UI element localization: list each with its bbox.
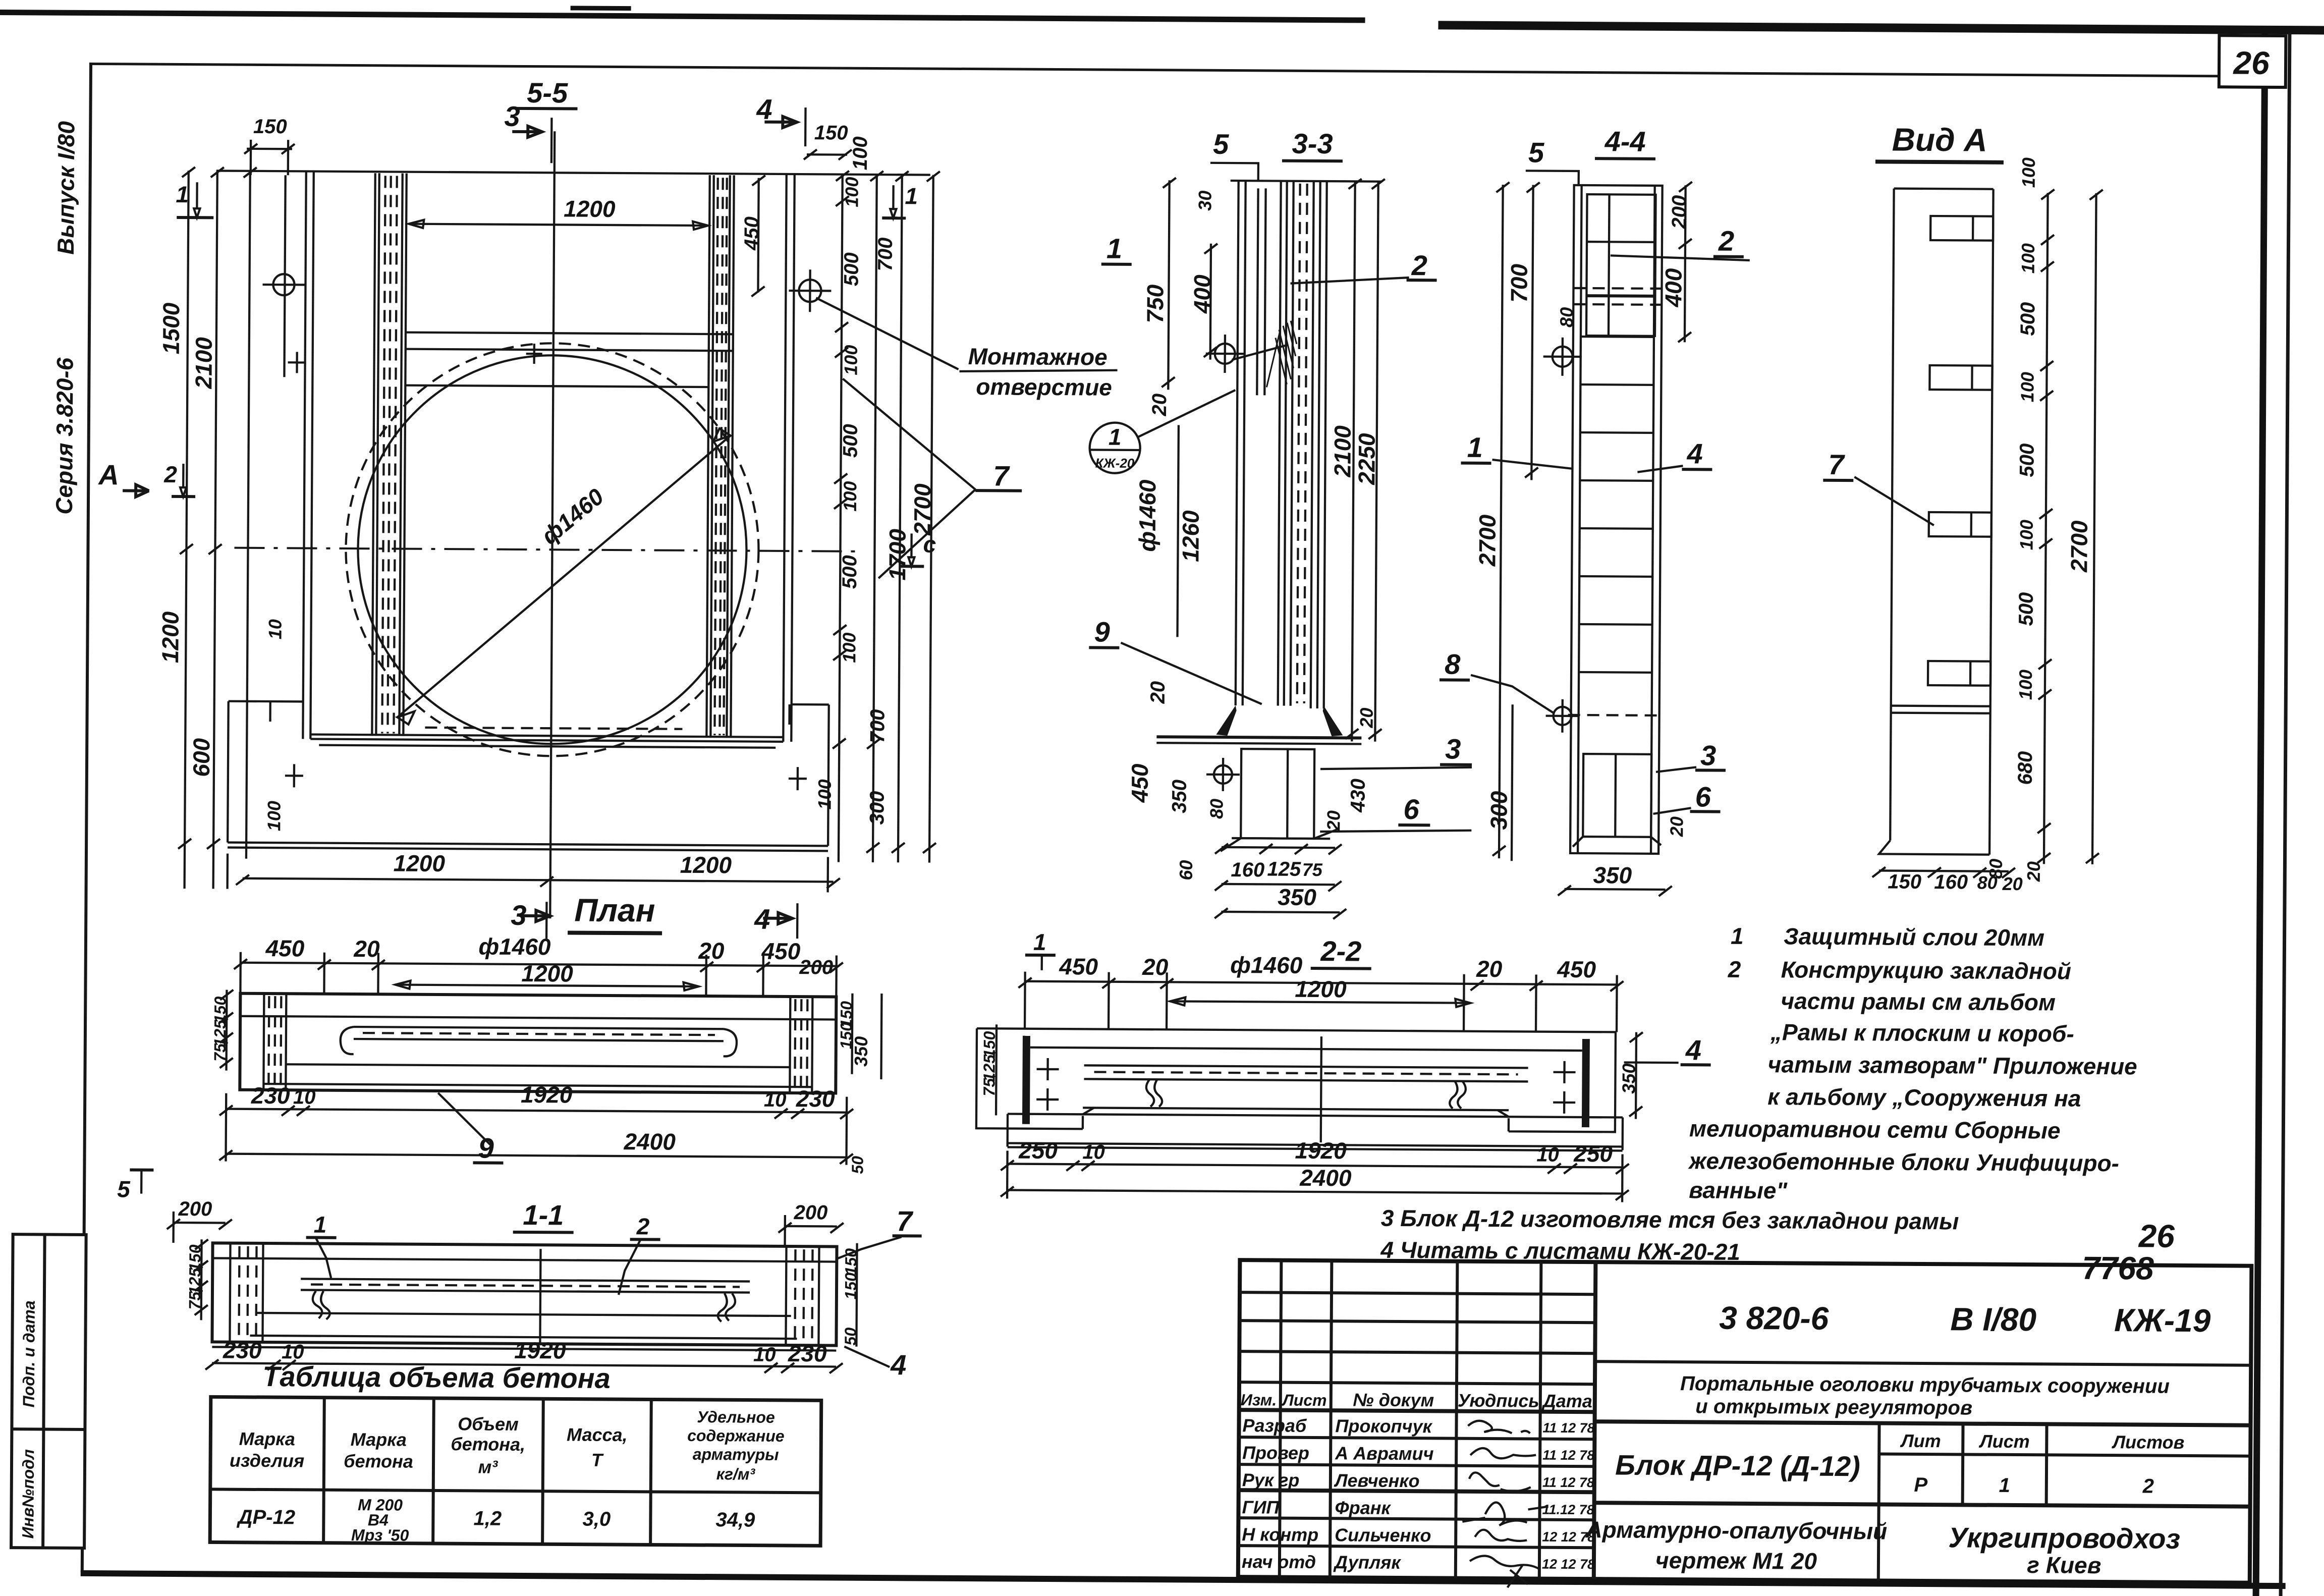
view A bottom dims <box>1872 867 2023 894</box>
svg-text:5: 5 <box>1213 128 1229 160</box>
svg-text:100: 100 <box>2018 243 2038 273</box>
small cross mark <box>526 344 542 364</box>
svg-text:Сильченко: Сильченко <box>1335 1524 1431 1546</box>
frame right outer border <box>2279 33 2291 1596</box>
revision header labels <box>1241 1389 1592 1411</box>
leader from montage hole to label <box>816 298 959 369</box>
svg-text:3: 3 <box>1445 733 1461 764</box>
4-4 bottom montage hole <box>1545 699 1579 733</box>
svg-text:Подп. и дата: Подп. и дата <box>20 1300 38 1407</box>
svg-text:11 12 78: 11 12 78 <box>1542 1420 1594 1436</box>
svg-text:бетона,: бетона, <box>451 1434 525 1455</box>
svg-text:Т: Т <box>591 1450 604 1470</box>
3-3 right dims 2100 2250 <box>1327 179 1385 742</box>
svg-text:7768: 7768 <box>2082 1250 2154 1287</box>
svg-text:10: 10 <box>1082 1141 1105 1163</box>
3-3 right small dims 430 20 <box>1323 707 1376 832</box>
4-4 ladder rungs <box>1579 337 1654 673</box>
leader 7 markers right <box>842 379 1022 579</box>
svg-text:700: 700 <box>866 709 889 743</box>
svg-text:12 12 78: 12 12 78 <box>1542 1557 1595 1572</box>
svg-text:450: 450 <box>1059 953 1098 979</box>
svg-text:20: 20 <box>2002 873 2023 894</box>
svg-text:3: 3 <box>504 100 520 132</box>
svg-text:арматуры: арматуры <box>693 1445 779 1464</box>
svg-text:Инв№подл: Инв№подл <box>19 1449 37 1538</box>
title 1-1 <box>513 1199 574 1233</box>
marker 2 right with leader <box>1291 249 1437 285</box>
svg-text:2700: 2700 <box>2066 520 2092 573</box>
svg-text:100: 100 <box>840 345 861 375</box>
svg-text:80: 80 <box>1556 307 1577 327</box>
base slab <box>228 701 829 851</box>
svg-text:А: А <box>97 459 119 490</box>
signature dates <box>1542 1420 1596 1572</box>
frame bottom border <box>81 1570 2286 1589</box>
4-4 bottom dim 350 <box>1558 862 1672 896</box>
svg-text:г Киев: г Киев <box>2027 1552 2101 1578</box>
svg-text:2-2: 2-2 <box>1320 935 1361 967</box>
svg-text:30: 30 <box>1194 191 1215 211</box>
svg-text:КЖ-20: КЖ-20 <box>1095 455 1135 470</box>
section mark c right <box>900 531 936 566</box>
svg-text:230: 230 <box>796 1085 835 1112</box>
marker 4 right of 2-2 <box>1624 1034 1711 1066</box>
svg-text:20: 20 <box>1476 956 1503 982</box>
right dim chain <box>814 171 940 862</box>
svg-text:Изм.: Изм. <box>1241 1391 1277 1409</box>
svg-text:и открытых регуляторов: и открытых регуляторов <box>1695 1395 1972 1419</box>
svg-text:бетона: бетона <box>344 1451 413 1472</box>
svg-text:1-1: 1-1 <box>523 1199 564 1231</box>
plan body <box>240 994 836 1093</box>
svg-text:450: 450 <box>1127 763 1153 803</box>
section mark 4 top <box>756 93 806 147</box>
svg-text:2100: 2100 <box>190 337 217 390</box>
svg-text:1: 1 <box>176 181 189 207</box>
svg-text:750: 750 <box>1142 284 1168 323</box>
2-2 bottom dims <box>1001 1135 1629 1202</box>
svg-text:Р: Р <box>1914 1474 1927 1496</box>
marker 2 <box>619 1213 660 1295</box>
4-4 montage hole <box>1543 338 1581 376</box>
plan bottom dims <box>219 1080 853 1165</box>
svg-text:10: 10 <box>1536 1144 1559 1166</box>
svg-text:ДР-12: ДР-12 <box>237 1506 296 1529</box>
svg-text:1: 1 <box>1999 1474 2011 1497</box>
2-2 right rotated dim 350 <box>1618 1032 1643 1119</box>
section 2-2 body <box>976 1028 1616 1132</box>
svg-text:700: 700 <box>1506 263 1532 302</box>
marker 7 section 1-1 <box>836 1205 922 1260</box>
view A right dim chain <box>1985 157 2103 883</box>
section 3-3 column <box>1228 181 1382 709</box>
top edge line <box>216 171 930 175</box>
svg-text:10: 10 <box>264 619 285 639</box>
svg-text:20: 20 <box>698 938 725 964</box>
svg-text:1: 1 <box>1033 929 1046 955</box>
left dim chain 1500 2100 <box>155 167 288 889</box>
svg-text:100: 100 <box>840 481 860 512</box>
svg-text:500: 500 <box>840 252 862 286</box>
svg-text:200: 200 <box>1668 195 1690 230</box>
svg-text:Марка: Марка <box>239 1428 295 1450</box>
3-3 foot montage hole <box>1206 758 1240 791</box>
section mark 3 bottom <box>511 899 550 939</box>
svg-text:700: 700 <box>874 238 897 271</box>
svg-text:26: 26 <box>2233 44 2270 81</box>
svg-text:350: 350 <box>1168 780 1190 813</box>
svg-text:Выпуск I/80: Выпуск I/80 <box>52 121 80 255</box>
svg-text:100: 100 <box>849 136 871 170</box>
marker 3 of 4-4 <box>1656 739 1726 773</box>
svg-text:изделия: изделия <box>230 1450 304 1471</box>
svg-text:Конструкцию закладной: Конструкцию закладной <box>1781 956 2071 984</box>
svg-text:железобетонные блоки Унифици: железобетонные блоки Унифициро- <box>1687 1147 2119 1176</box>
svg-text:Укргипроводхоз: Укргипроводхоз <box>1948 1521 2180 1555</box>
svg-text:500: 500 <box>839 555 861 589</box>
svg-text:100: 100 <box>2017 372 2037 402</box>
svg-text:20: 20 <box>1142 954 1169 980</box>
svg-text:Лист: Лист <box>1282 1391 1327 1410</box>
svg-text:1200: 1200 <box>1295 976 1347 1003</box>
svg-text:4 Читать с листами КЖ-20-2: 4 Читать с листами КЖ-20-21 <box>1380 1237 1740 1265</box>
svg-text:Мрз '50: Мрз '50 <box>351 1526 409 1545</box>
svg-text:м³: м³ <box>478 1456 499 1477</box>
svg-text:20: 20 <box>1147 681 1169 704</box>
svg-text:Франк: Франк <box>1335 1497 1391 1518</box>
svg-text:450: 450 <box>1557 956 1596 982</box>
label Монтажное отверстие <box>959 343 1118 401</box>
svg-text:430: 430 <box>1347 779 1369 813</box>
svg-text:2: 2 <box>2142 1475 2154 1497</box>
dim 1200 inner top <box>409 195 708 230</box>
svg-text:2: 2 <box>163 461 177 487</box>
svg-text:3,0: 3,0 <box>582 1508 611 1530</box>
lit list listov table <box>1878 1423 2251 1582</box>
svg-text:10: 10 <box>753 1344 776 1366</box>
svg-text:500: 500 <box>840 424 862 458</box>
bottom-left stamp strip <box>11 1234 86 1548</box>
svg-text:20: 20 <box>1666 816 1687 837</box>
section mark 5 left <box>117 1170 153 1202</box>
svg-text:2700: 2700 <box>909 483 936 536</box>
section mark 5-5 <box>516 77 578 109</box>
svg-text:26: 26 <box>2138 1218 2175 1254</box>
marker 9 with leader <box>1089 616 1262 704</box>
svg-text:кг/м³: кг/м³ <box>716 1465 756 1483</box>
svg-text:Прокопчук: Прокопчук <box>1335 1415 1432 1437</box>
svg-text:100: 100 <box>263 801 284 831</box>
revision table rows <box>1238 1292 1595 1548</box>
svg-text:ф1460: ф1460 <box>478 933 551 960</box>
plan right rotated dims <box>836 994 881 1174</box>
3-3 left dims <box>1126 178 1231 880</box>
svg-text:3: 3 <box>1700 739 1717 771</box>
svg-text:чертеж М1 20: чертеж М1 20 <box>1655 1547 1817 1574</box>
detail circle 1 КЖ-20 <box>1089 389 1235 474</box>
svg-text:3-3: 3-3 <box>1292 128 1333 159</box>
2-2 top dims <box>1018 951 1624 1032</box>
svg-text:100: 100 <box>839 633 859 663</box>
svg-text:100: 100 <box>841 177 862 207</box>
svg-text:7: 7 <box>993 460 1010 491</box>
svg-text:4: 4 <box>890 1349 907 1381</box>
plan left rotated dims <box>211 989 234 1070</box>
svg-text:100: 100 <box>2015 670 2036 700</box>
section mark 3 top <box>504 100 552 163</box>
title 3-3 <box>1282 128 1343 161</box>
frame left border <box>81 63 92 1572</box>
svg-text:1260: 1260 <box>1177 510 1204 562</box>
svg-text:100: 100 <box>814 779 835 809</box>
svg-text:Масса,: Масса, <box>567 1424 628 1445</box>
title block big code 3 820-6 В I/80 КЖ-19 <box>1719 1300 2211 1339</box>
3-3 hatched chamfer <box>1266 320 1297 387</box>
svg-text:150: 150 <box>814 122 848 144</box>
dim 1200 1200 bottom <box>228 849 840 893</box>
svg-text:80: 80 <box>1977 872 1998 893</box>
marker 4 of 4-4 <box>1637 437 1712 473</box>
svg-text:300: 300 <box>866 791 888 824</box>
svg-text:160: 160 <box>1934 871 1968 893</box>
view A marker <box>97 459 149 497</box>
dim 200 right <box>779 1201 844 1247</box>
svg-text:1200: 1200 <box>157 611 184 663</box>
svg-text:160: 160 <box>1231 859 1264 881</box>
svg-text:10: 10 <box>282 1341 304 1363</box>
svg-text:350: 350 <box>1593 862 1632 888</box>
svg-text:2400: 2400 <box>1299 1165 1352 1191</box>
svg-text:Лист: Лист <box>1978 1431 2030 1452</box>
svg-text:150: 150 <box>253 116 287 138</box>
marker 1 top left of 2-2 <box>1025 929 1056 970</box>
svg-text:Серия 3.820-6: Серия 3.820-6 <box>51 357 78 515</box>
svg-text:5-5: 5-5 <box>527 77 568 108</box>
svg-text:1: 1 <box>905 183 918 209</box>
svg-text:4-4: 4-4 <box>1604 125 1646 157</box>
svg-text:2: 2 <box>1411 249 1428 281</box>
svg-text:600: 600 <box>188 738 214 777</box>
marker 1 <box>306 1211 337 1278</box>
svg-text:2700: 2700 <box>1474 514 1501 567</box>
svg-text:75: 75 <box>1302 859 1323 880</box>
section 1-1 bottom dims <box>205 1335 843 1373</box>
svg-text:отверстие: отверстие <box>976 373 1112 401</box>
vertical centerline <box>550 131 555 918</box>
svg-text:230: 230 <box>788 1340 827 1366</box>
frame top border <box>89 63 2221 77</box>
body right outer wall <box>783 174 794 742</box>
svg-text:4: 4 <box>1685 1034 1702 1066</box>
svg-text:В I/80: В I/80 <box>1950 1301 2036 1338</box>
svg-text:20: 20 <box>1356 707 1376 728</box>
svg-text:680: 680 <box>2014 751 2036 785</box>
frame right inner border <box>2253 33 2268 1596</box>
dashed circle opening <box>345 342 760 757</box>
svg-text:230: 230 <box>251 1082 290 1109</box>
svg-text:20: 20 <box>2023 861 2044 882</box>
montage hole left <box>262 175 307 377</box>
svg-text:100: 100 <box>2016 520 2037 550</box>
svg-text:500: 500 <box>2017 302 2039 336</box>
dim 150 top left <box>244 116 295 176</box>
svg-text:9: 9 <box>478 1132 494 1164</box>
svg-text:чатым затворам" Приложение: чатым затворам" Приложение <box>1767 1051 2137 1079</box>
svg-text:11 12 78: 11 12 78 <box>1542 1475 1594 1491</box>
svg-text:450: 450 <box>761 938 800 964</box>
svg-text:20: 20 <box>1148 394 1171 417</box>
top scan streak left <box>0 10 1365 23</box>
marker 8 with leader <box>1440 648 1554 712</box>
svg-text:2: 2 <box>1718 225 1735 257</box>
svg-text:Защитный слои 20мм: Защитный слои 20мм <box>1784 923 2044 951</box>
marker 1 left <box>1101 233 1132 264</box>
svg-text:Лит: Лит <box>1900 1430 1941 1451</box>
svg-text:Удельное: Удельное <box>697 1408 775 1426</box>
svg-text:500: 500 <box>2015 592 2037 626</box>
svg-text:50: 50 <box>848 1156 866 1174</box>
svg-text:1: 1 <box>1467 431 1483 463</box>
svg-text:Рук гр: Рук гр <box>1242 1469 1300 1491</box>
svg-text:Объем: Объем <box>458 1413 519 1435</box>
marker 4 section 1-1 <box>844 1347 907 1381</box>
section mark 1 right <box>882 183 918 218</box>
4-4 top embed <box>1573 181 1692 342</box>
svg-text:11.12 78: 11.12 78 <box>1542 1502 1594 1518</box>
svg-text:500: 500 <box>2016 444 2038 477</box>
svg-text:План: План <box>574 892 655 929</box>
svg-text:7: 7 <box>897 1205 914 1237</box>
svg-text:Портальные оголовки трубчатых: Портальные оголовки трубчатых сооружении <box>1680 1372 2170 1398</box>
3-3 bottom dims <box>1214 844 1347 919</box>
signatures squiggles <box>1462 1421 1549 1588</box>
svg-text:125: 125 <box>1267 858 1301 880</box>
svg-text:9: 9 <box>1094 616 1110 647</box>
3-3 montage hole <box>1206 335 1288 373</box>
svg-text:мелиоративнои сети Сборные: мелиоративнои сети Сборные <box>1689 1115 2061 1143</box>
svg-text:1920: 1920 <box>521 1081 573 1108</box>
svg-text:КЖ-19: КЖ-19 <box>2114 1302 2211 1339</box>
svg-text:1: 1 <box>1109 424 1122 450</box>
title 4-4 <box>1595 125 1655 159</box>
svg-text:1,2: 1,2 <box>473 1507 502 1529</box>
svg-text:2250: 2250 <box>1353 433 1380 485</box>
right inner column <box>706 175 734 738</box>
svg-text:80: 80 <box>1206 799 1227 819</box>
svg-text:Листов: Листов <box>2111 1432 2184 1453</box>
view A bottom joint lines <box>1891 706 1990 713</box>
marker 1 of 4-4 <box>1461 431 1572 469</box>
svg-text:1920: 1920 <box>514 1337 566 1364</box>
diameter arrow <box>397 427 730 727</box>
svg-text:60: 60 <box>1176 860 1196 880</box>
svg-text:6: 6 <box>1403 793 1419 825</box>
svg-text:4: 4 <box>1686 437 1703 469</box>
svg-text:Уюдпись: Уюдпись <box>1458 1390 1539 1411</box>
svg-text:250: 250 <box>1573 1140 1613 1167</box>
svg-text:части рамы см альбом: части рамы см альбом <box>1781 987 2056 1015</box>
svg-text:№ докум: № докум <box>1353 1389 1434 1410</box>
revision table columns <box>1280 1260 1541 1579</box>
svg-text:ф1460: ф1460 <box>1230 952 1303 978</box>
svg-text:5: 5 <box>117 1176 131 1202</box>
marker 3 right <box>1320 732 1472 770</box>
svg-text:1920: 1920 <box>1295 1137 1347 1164</box>
svg-text:450: 450 <box>265 935 304 961</box>
svg-text:150: 150 <box>1888 871 1921 893</box>
svg-text:Блок ДР-12 (Д-12): Блок ДР-12 (Д-12) <box>1615 1449 1860 1482</box>
2-2 left rotated dims <box>980 1024 999 1115</box>
svg-text:7: 7 <box>1828 449 1845 480</box>
table frame <box>210 1397 821 1546</box>
svg-text:1200: 1200 <box>521 960 573 987</box>
marker 7 view A <box>1823 449 1934 525</box>
view A bar <box>1879 188 1994 854</box>
marker 6 right <box>1320 793 1471 833</box>
inner opening bottom band <box>310 727 783 748</box>
svg-text:300: 300 <box>1485 791 1512 830</box>
plus mark right slab <box>789 767 807 790</box>
svg-text:20: 20 <box>353 935 380 962</box>
section 2-2 base slab <box>1008 1035 1623 1151</box>
body left outer wall <box>303 171 313 739</box>
svg-text:1: 1 <box>1106 233 1123 264</box>
svg-text:Разраб: Разраб <box>1242 1415 1307 1436</box>
marker 6 of 4-4 <box>1653 781 1720 814</box>
svg-text:нач отд: нач отд <box>1242 1551 1316 1572</box>
svg-text:250: 250 <box>1018 1137 1058 1164</box>
svg-text:содержание: содержание <box>687 1426 785 1445</box>
montage hole right <box>789 269 831 312</box>
svg-text:8: 8 <box>1445 648 1461 680</box>
svg-text:10: 10 <box>764 1089 787 1111</box>
marker 5 top <box>1210 128 1259 181</box>
svg-text:350: 350 <box>851 1036 871 1067</box>
svg-text:Монтажное: Монтажное <box>968 343 1108 370</box>
svg-text:к альбому „Сооружения на: к альбому „Сооружения на <box>1767 1083 2081 1112</box>
sheet number box 26 <box>2219 35 2286 87</box>
svg-text:ванные": ванные" <box>1689 1177 1788 1203</box>
svg-text:1700: 1700 <box>884 528 911 580</box>
4-4 column <box>1570 185 1663 854</box>
section 1-1 body <box>212 1243 837 1350</box>
4-4 left dim 300 <box>1485 704 1513 861</box>
svg-text:3 Блок Д-12 изготовляе тся: 3 Блок Д-12 изготовляе тся без закладнои… <box>1381 1205 1959 1235</box>
svg-text:100: 100 <box>2018 157 2039 188</box>
svg-text:Дупляк: Дупляк <box>1333 1552 1402 1573</box>
svg-text:Дата: Дата <box>1541 1391 1592 1412</box>
section mark 4 bottom <box>754 903 797 939</box>
plan top dims row <box>234 932 843 997</box>
svg-text:6: 6 <box>1695 781 1711 812</box>
svg-text:200: 200 <box>793 1201 827 1224</box>
section mark 2 left <box>163 461 195 497</box>
svg-text:200: 200 <box>799 956 833 978</box>
svg-text:20: 20 <box>1323 810 1344 831</box>
svg-text:А Аврамич: А Аврамич <box>1335 1443 1434 1464</box>
svg-text:1200: 1200 <box>564 195 616 222</box>
scan blob <box>571 6 631 11</box>
horizontal centerline <box>234 548 855 552</box>
dim 200 left <box>167 1198 233 1243</box>
signature rows names <box>1333 1415 1434 1573</box>
marker 5 top 4-4 <box>1526 136 1579 186</box>
dim 150 top right <box>804 122 852 160</box>
dim 450 right rotated <box>740 175 765 296</box>
svg-text:230: 230 <box>223 1337 262 1363</box>
title 2-2 <box>1311 935 1371 969</box>
